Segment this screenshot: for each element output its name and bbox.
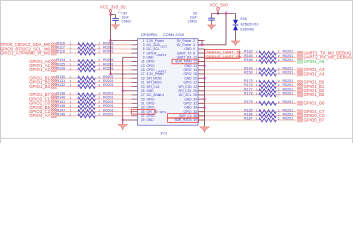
svg-text:R0201: R0201	[103, 83, 114, 87]
svg-text:1: 1	[256, 58, 258, 62]
svg-text:1: 1	[70, 83, 72, 87]
svg-text:GPIO1_A7/PWM0_IR_M0: GPIO1_A7/PWM0_IR_M0	[0, 50, 51, 55]
svg-text:1: 1	[256, 100, 258, 104]
svg-text:CONN 2X20: CONN 2X20	[163, 33, 184, 37]
svg-text:2: 2	[278, 58, 280, 62]
svg-text:VCC_5V0: VCC_5V0	[210, 3, 229, 8]
svg-text:R126: R126	[57, 67, 66, 71]
svg-text:I2C3: I2C3	[161, 45, 168, 49]
svg-text:ESD0402: ESD0402	[241, 28, 255, 32]
svg-text:SDR_RXD0: SDR_RXD0	[174, 118, 191, 122]
svg-text:2: 2	[278, 100, 280, 104]
svg-text:2: 2	[98, 83, 100, 87]
svg-text:1: 1	[70, 67, 72, 71]
svg-text:1: 1	[256, 71, 258, 75]
svg-text:C0402: C0402	[188, 20, 198, 24]
svg-text:I2C1: I2C1	[158, 93, 165, 97]
svg-text:GPIO4_A7: GPIO4_A7	[29, 113, 50, 118]
svg-text:R0201: R0201	[283, 100, 294, 104]
svg-text:2: 2	[278, 92, 280, 96]
svg-text:39: 39	[141, 118, 145, 122]
svg-text:GND: GND	[147, 118, 155, 122]
svg-text:GPIO0_B7: GPIO0_B7	[304, 117, 325, 122]
svg-text:R0201: R0201	[283, 71, 294, 75]
svg-text:UART2: UART2	[157, 53, 167, 57]
svg-text:1: 1	[256, 117, 258, 121]
svg-text:R0201: R0201	[103, 112, 114, 116]
svg-text:R0201: R0201	[283, 92, 294, 96]
svg-text:2: 2	[98, 67, 100, 71]
svg-text:R0201: R0201	[283, 58, 294, 62]
svg-text:GPIO1_A4: GPIO1_A4	[304, 71, 325, 76]
svg-text:3V3: 3V3	[160, 131, 168, 136]
svg-text:GPIO1_D6: GPIO1_D6	[304, 101, 326, 106]
svg-text:R0201: R0201	[103, 67, 114, 71]
svg-text:1A: 1A	[118, 10, 122, 14]
svg-text:SPI1: SPI1	[160, 110, 167, 114]
svg-text:R0201: R0201	[103, 50, 114, 54]
svg-text:GPIO1_B5: GPIO1_B5	[304, 92, 325, 97]
svg-text:R184: R184	[244, 58, 253, 62]
svg-text:1: 1	[70, 112, 72, 116]
svg-text:AZ5B25-01F: AZ5B25-01F	[241, 23, 259, 27]
svg-text:R148: R148	[57, 112, 66, 116]
svg-text:GPIO1_B3: GPIO1_B3	[29, 84, 50, 89]
svg-text:40: 40	[193, 118, 197, 122]
svg-text:2: 2	[98, 50, 100, 54]
svg-text:VCC_3V3_S0: VCC_3V3_S0	[100, 5, 126, 10]
svg-text:R150: R150	[244, 71, 253, 75]
svg-text:R178: R178	[244, 92, 253, 96]
svg-text:GPIO4_A6: GPIO4_A6	[304, 59, 325, 64]
svg-text:UART1: UART1	[157, 70, 167, 74]
svg-text:GPIO1_A2: GPIO1_A2	[29, 67, 50, 72]
svg-text:2: 2	[278, 71, 280, 75]
svg-text:2: 2	[98, 112, 100, 116]
svg-text:C0402: C0402	[122, 20, 132, 24]
svg-text:2: 2	[278, 117, 280, 121]
svg-text:1: 1	[256, 92, 258, 96]
svg-text:R132: R132	[57, 83, 66, 87]
svg-text:GP40PIN: GP40PIN	[141, 33, 157, 37]
svg-text:R118: R118	[57, 50, 65, 54]
svg-text:R0201: R0201	[283, 117, 294, 121]
svg-text:R187: R187	[244, 117, 253, 121]
svg-text:ED6: ED6	[241, 17, 247, 21]
svg-text:1: 1	[70, 50, 72, 54]
svg-text:R179: R179	[244, 100, 253, 104]
